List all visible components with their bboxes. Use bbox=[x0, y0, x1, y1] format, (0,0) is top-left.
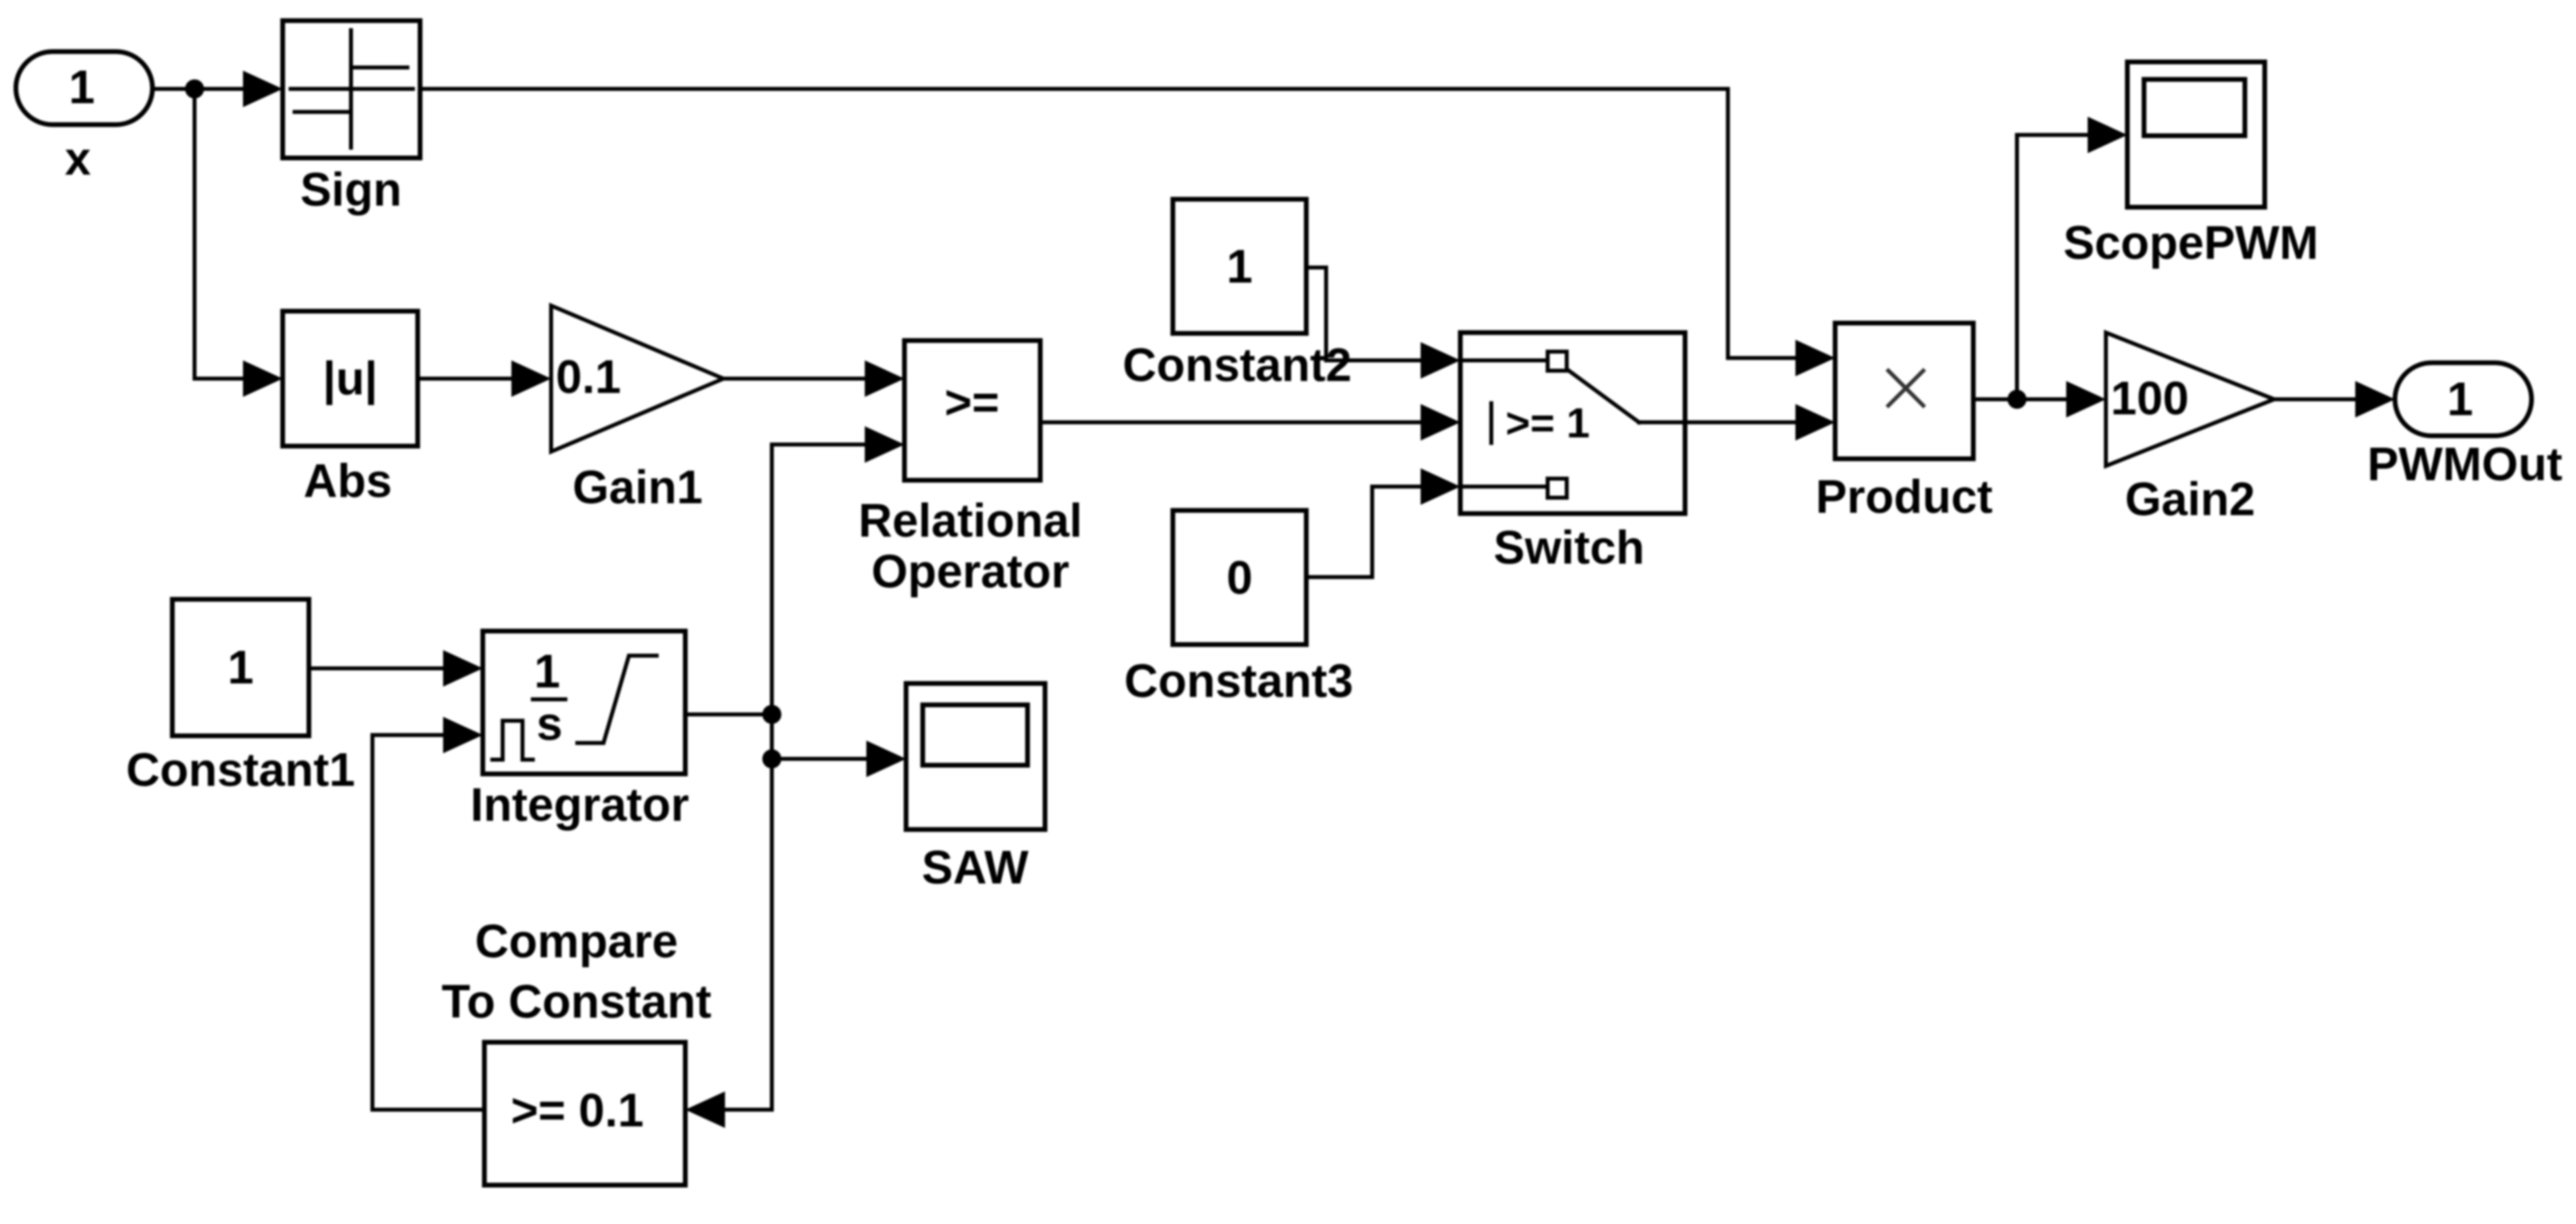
svg-text:Compare: Compare bbox=[475, 915, 678, 968]
inport x (oval 1) bbox=[16, 52, 152, 125]
svg-text:Gain2: Gain2 bbox=[2125, 473, 2255, 525]
svg-text:Abs: Abs bbox=[303, 455, 391, 507]
svg-text:1: 1 bbox=[69, 61, 95, 114]
svg-text:Relational: Relational bbox=[858, 495, 1082, 547]
node output junction bbox=[2007, 390, 2026, 409]
svg-text:Constant3: Constant3 bbox=[1124, 655, 1353, 707]
svg-text:Switch: Switch bbox=[1494, 522, 1645, 574]
wire junction to SAW bbox=[772, 714, 868, 759]
node junction 2 bbox=[762, 749, 781, 768]
svg-text:Operator: Operator bbox=[871, 545, 1069, 598]
block Constant2 bbox=[1173, 199, 1306, 333]
wire Relational Operator to Switch input 2 bbox=[1040, 421, 1422, 425]
wire Gain1 to Relational Operator input 1 bbox=[723, 377, 866, 381]
wire junction down to Abs bbox=[195, 89, 245, 379]
wire Constant1 to Integrator input 1 bbox=[309, 667, 445, 671]
svg-text:1: 1 bbox=[1227, 241, 1253, 293]
wire junction down to Compare To Constant bbox=[723, 759, 772, 1110]
wire junction up to ScopePWM bbox=[2017, 135, 2089, 399]
block Relational Operator bbox=[904, 341, 1040, 480]
scope SAW bbox=[906, 683, 1045, 829]
wire Abs to Gain1 bbox=[418, 377, 513, 381]
svg-text:0: 0 bbox=[1227, 552, 1253, 604]
wire Compare To Constant to Integrator input 2 bbox=[372, 735, 484, 1110]
wire Gain2 to PWMOut bbox=[2274, 398, 2357, 402]
svg-text:>= 1: >= 1 bbox=[1506, 400, 1590, 447]
svg-text:1: 1 bbox=[228, 641, 254, 694]
svg-text:0.1: 0.1 bbox=[556, 351, 621, 403]
svg-text:Integrator: Integrator bbox=[470, 779, 688, 831]
block Switch bbox=[1460, 333, 1685, 514]
svg-text:To Constant: To Constant bbox=[442, 976, 711, 1028]
outport PWMOut (oval 1) bbox=[2395, 363, 2532, 436]
block Sign bbox=[283, 21, 420, 158]
node branch junction bbox=[185, 79, 204, 98]
svg-text:Gain1: Gain1 bbox=[573, 461, 703, 514]
svg-text:SAW: SAW bbox=[922, 841, 1029, 894]
wire Constant3 to Switch input 3 bbox=[1306, 487, 1422, 577]
wire inport to Sign bbox=[152, 87, 245, 91]
svg-text:Sign: Sign bbox=[300, 164, 402, 216]
wire Sign to Product input 1 bbox=[420, 89, 1797, 358]
svg-text:|u|: |u| bbox=[322, 352, 377, 406]
svg-text:Constant2: Constant2 bbox=[1123, 339, 1352, 391]
svg-text:PWMOut: PWMOut bbox=[2367, 438, 2563, 491]
svg-text:ScopePWM: ScopePWM bbox=[2063, 217, 2318, 269]
gain Gain2 (100) bbox=[2106, 333, 2274, 466]
svg-text:100: 100 bbox=[2111, 372, 2188, 425]
block Integrator bbox=[483, 631, 685, 774]
svg-text:s: s bbox=[537, 698, 563, 750]
svg-text:x: x bbox=[65, 133, 91, 185]
block Product bbox=[1835, 323, 1973, 459]
wire Integrator output to Relational Operator input 2 bbox=[685, 445, 866, 714]
svg-text:Constant1: Constant1 bbox=[126, 744, 355, 796]
svg-text:>=: >= bbox=[945, 376, 1000, 429]
svg-text:1: 1 bbox=[534, 645, 561, 698]
wire Product to Gain2 bbox=[1973, 398, 2068, 402]
block Constant1 bbox=[172, 599, 309, 736]
node junction 1 bbox=[762, 705, 781, 724]
block Constant3 bbox=[1173, 510, 1306, 645]
scope ScopePWM bbox=[2127, 62, 2265, 207]
svg-text:Product: Product bbox=[1816, 471, 1993, 523]
svg-text:>= 0.1: >= 0.1 bbox=[511, 1084, 643, 1137]
block Abs bbox=[283, 311, 418, 446]
wire Switch to Product input 2 bbox=[1685, 421, 1797, 425]
gain Gain1 (0.1) bbox=[551, 306, 723, 452]
block Compare To Constant bbox=[484, 1042, 685, 1185]
svg-text:1: 1 bbox=[2447, 373, 2474, 425]
wire Constant2 to Switch input 1 bbox=[1306, 268, 1422, 360]
